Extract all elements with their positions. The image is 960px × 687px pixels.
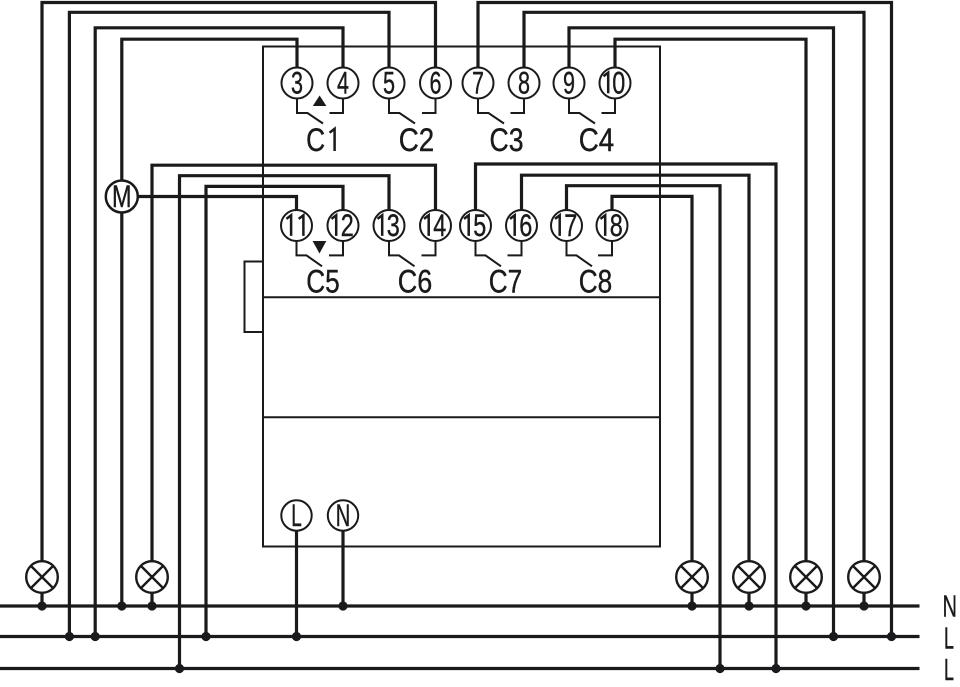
svg-text:3: 3 <box>291 65 303 101</box>
svg-text:0: 0 <box>612 65 625 101</box>
svg-text:C7: C7 <box>489 264 523 300</box>
svg-text:5: 5 <box>473 207 486 243</box>
svg-text:6: 6 <box>430 65 442 101</box>
svg-text:N: N <box>336 497 351 533</box>
svg-text:L: L <box>944 621 954 656</box>
svg-text:2: 2 <box>341 207 354 243</box>
svg-text:M: M <box>112 178 132 214</box>
svg-text:8: 8 <box>518 65 530 101</box>
svg-text:L: L <box>291 497 302 533</box>
svg-text:L: L <box>944 652 954 687</box>
svg-text:7: 7 <box>564 207 577 243</box>
svg-text:C5: C5 <box>306 264 340 300</box>
svg-text:3: 3 <box>387 207 400 243</box>
svg-text:7: 7 <box>472 65 484 101</box>
svg-text:C2: C2 <box>399 122 435 158</box>
svg-text:C3: C3 <box>490 122 524 158</box>
svg-text:8: 8 <box>610 207 623 243</box>
svg-text:4: 4 <box>433 207 446 243</box>
svg-text:N: N <box>943 589 958 624</box>
svg-text:5: 5 <box>383 65 395 101</box>
svg-text:6: 6 <box>519 207 532 243</box>
svg-text:C8: C8 <box>579 264 613 300</box>
svg-text:C: C <box>306 122 325 158</box>
svg-text:C4: C4 <box>579 122 615 158</box>
svg-text:C6: C6 <box>398 264 433 300</box>
svg-text:9: 9 <box>563 65 575 101</box>
svg-text:4: 4 <box>337 65 349 101</box>
